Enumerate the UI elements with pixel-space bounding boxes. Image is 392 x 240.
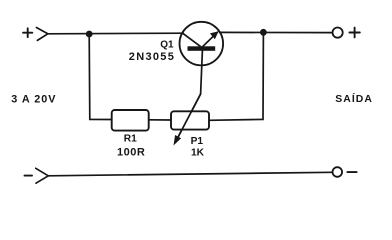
svg-text:1K: 1K bbox=[191, 147, 205, 158]
svg-text:3 A 20V: 3 A 20V bbox=[11, 94, 56, 106]
svg-text:100R: 100R bbox=[117, 147, 145, 159]
svg-text:Q1: Q1 bbox=[160, 40, 174, 51]
svg-text:R1: R1 bbox=[124, 134, 137, 145]
svg-text:SAÍDA: SAÍDA bbox=[335, 92, 373, 105]
svg-text:P1: P1 bbox=[191, 136, 204, 147]
svg-text:2N3055: 2N3055 bbox=[129, 51, 175, 63]
